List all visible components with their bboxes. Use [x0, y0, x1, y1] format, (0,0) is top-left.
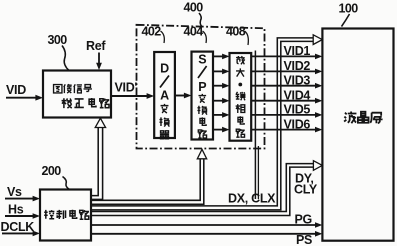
svg-text:S: S	[198, 53, 206, 67]
VID' net label and wire to 402	[111, 81, 154, 99]
svg-text:100: 100	[339, 2, 359, 16]
label DY, CLY	[294, 172, 318, 197]
label 300 with leader	[48, 33, 70, 71]
PG line	[91, 212, 322, 228]
svg-text:VID: VID	[6, 83, 26, 97]
label 100 with leader	[339, 2, 359, 27]
bus 200 to 400 (hollow arrow up into dashed box)	[91, 149, 207, 204]
label 400 with leader	[184, 1, 204, 27]
wire VID6	[251, 117, 322, 132]
Ref input arrow	[86, 39, 106, 70]
bus DX, CLX (200 to LCD top, hollow arrow)	[91, 35, 322, 210]
label 408 with tick	[226, 25, 248, 46]
svg-text:Ref: Ref	[86, 39, 106, 53]
DCLK input	[1, 220, 41, 236]
bus DY, CLY (200 to LCD left, hollow arrow)	[91, 161, 322, 216]
svg-text:Hs: Hs	[8, 203, 24, 217]
block 200: control circuit 控制电路	[40, 190, 91, 241]
Hs input	[5, 203, 40, 219]
wire VID2	[251, 59, 322, 74]
bus 200 to 300 (hollow arrow up)	[91, 118, 106, 199]
svg-text:D: D	[160, 62, 169, 76]
svg-text:DCLK: DCLK	[1, 220, 35, 234]
svg-text:404: 404	[184, 25, 204, 39]
svg-text:P: P	[198, 80, 206, 94]
block 408: amplifier / phase-lock circuit 放大·锁相电路	[230, 53, 252, 141]
6 wires 404 to 408	[213, 54, 230, 133]
block 402: D/A converter D/A变换器	[154, 52, 175, 139]
wire VID5	[251, 103, 322, 118]
svg-text:VID': VID'	[115, 81, 138, 95]
block 404: S/P conversion circuit S/P变换电路	[192, 52, 214, 140]
label 200 with leader	[42, 164, 70, 190]
VID input	[6, 83, 43, 101]
label 402 with tick	[142, 25, 165, 44]
wire VID1	[251, 44, 322, 59]
svg-text:408: 408	[226, 25, 246, 39]
svg-text:402: 402	[142, 25, 162, 39]
svg-text:A: A	[160, 89, 169, 103]
label 404 with tick	[184, 25, 207, 44]
svg-text:CLY: CLY	[294, 183, 318, 197]
svg-text:200: 200	[42, 164, 62, 178]
block 300: image signal correction circuit 图像信号校正电路	[43, 71, 111, 118]
wire 402 to 404	[175, 93, 192, 99]
wire VID3	[251, 73, 322, 88]
svg-text:300: 300	[48, 33, 68, 47]
dashed box 400	[137, 25, 265, 149]
svg-text:400: 400	[184, 1, 204, 15]
svg-text:DX, CLX: DX, CLX	[228, 192, 276, 206]
Vs input	[5, 185, 40, 201]
wire VID4	[251, 88, 322, 103]
svg-text:PS: PS	[296, 233, 312, 246]
vertical wire near 408 (x=255)	[255, 51, 258, 200]
svg-text:Vs: Vs	[7, 185, 22, 199]
LCD panel block 100 液晶屏	[322, 29, 393, 241]
PS line	[91, 231, 322, 246]
